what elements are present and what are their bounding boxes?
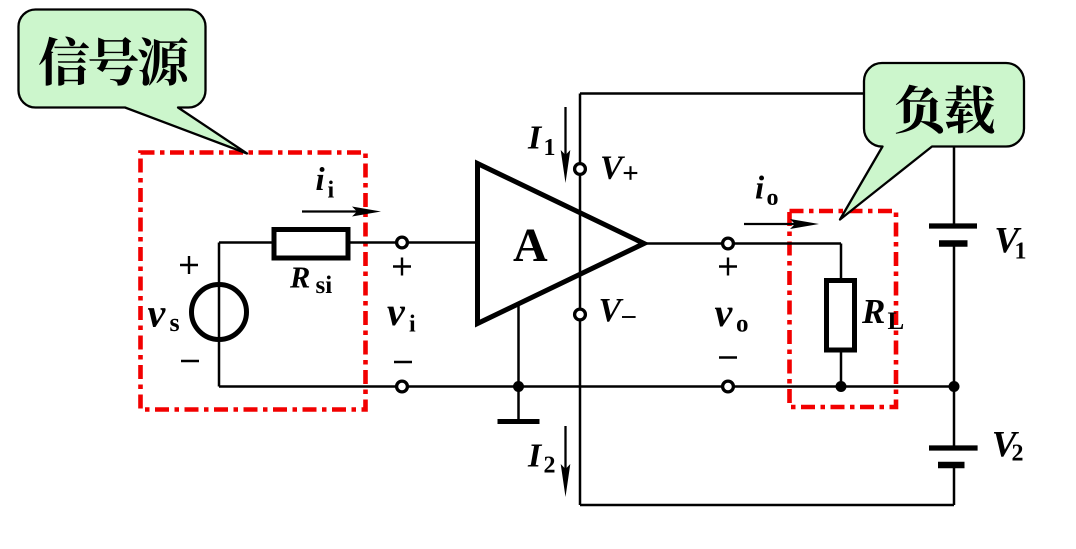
svg-text:v: v	[387, 289, 406, 334]
svg-text:i: i	[316, 162, 326, 198]
svg-text:i: i	[328, 178, 335, 204]
svg-text:I: I	[527, 120, 543, 157]
svg-text:I: I	[527, 438, 543, 475]
svg-text:R: R	[289, 261, 310, 295]
svg-text:s: s	[170, 308, 180, 337]
svg-text:i: i	[409, 312, 416, 338]
svg-text:o: o	[767, 185, 779, 211]
svg-text:R: R	[861, 292, 885, 331]
svg-text:2: 2	[544, 453, 556, 479]
svg-text:2: 2	[1012, 441, 1024, 467]
svg-text:v: v	[715, 290, 734, 335]
svg-text:si: si	[316, 272, 333, 299]
svg-text:V: V	[599, 292, 624, 329]
svg-text:1: 1	[544, 135, 556, 161]
svg-text:V: V	[600, 150, 625, 187]
svg-text:L: L	[888, 308, 905, 335]
svg-text:1: 1	[1015, 239, 1027, 265]
svg-text:v: v	[148, 291, 167, 336]
svg-text:i: i	[755, 171, 765, 207]
svg-text:o: o	[736, 311, 749, 338]
svg-text:A: A	[513, 219, 548, 272]
